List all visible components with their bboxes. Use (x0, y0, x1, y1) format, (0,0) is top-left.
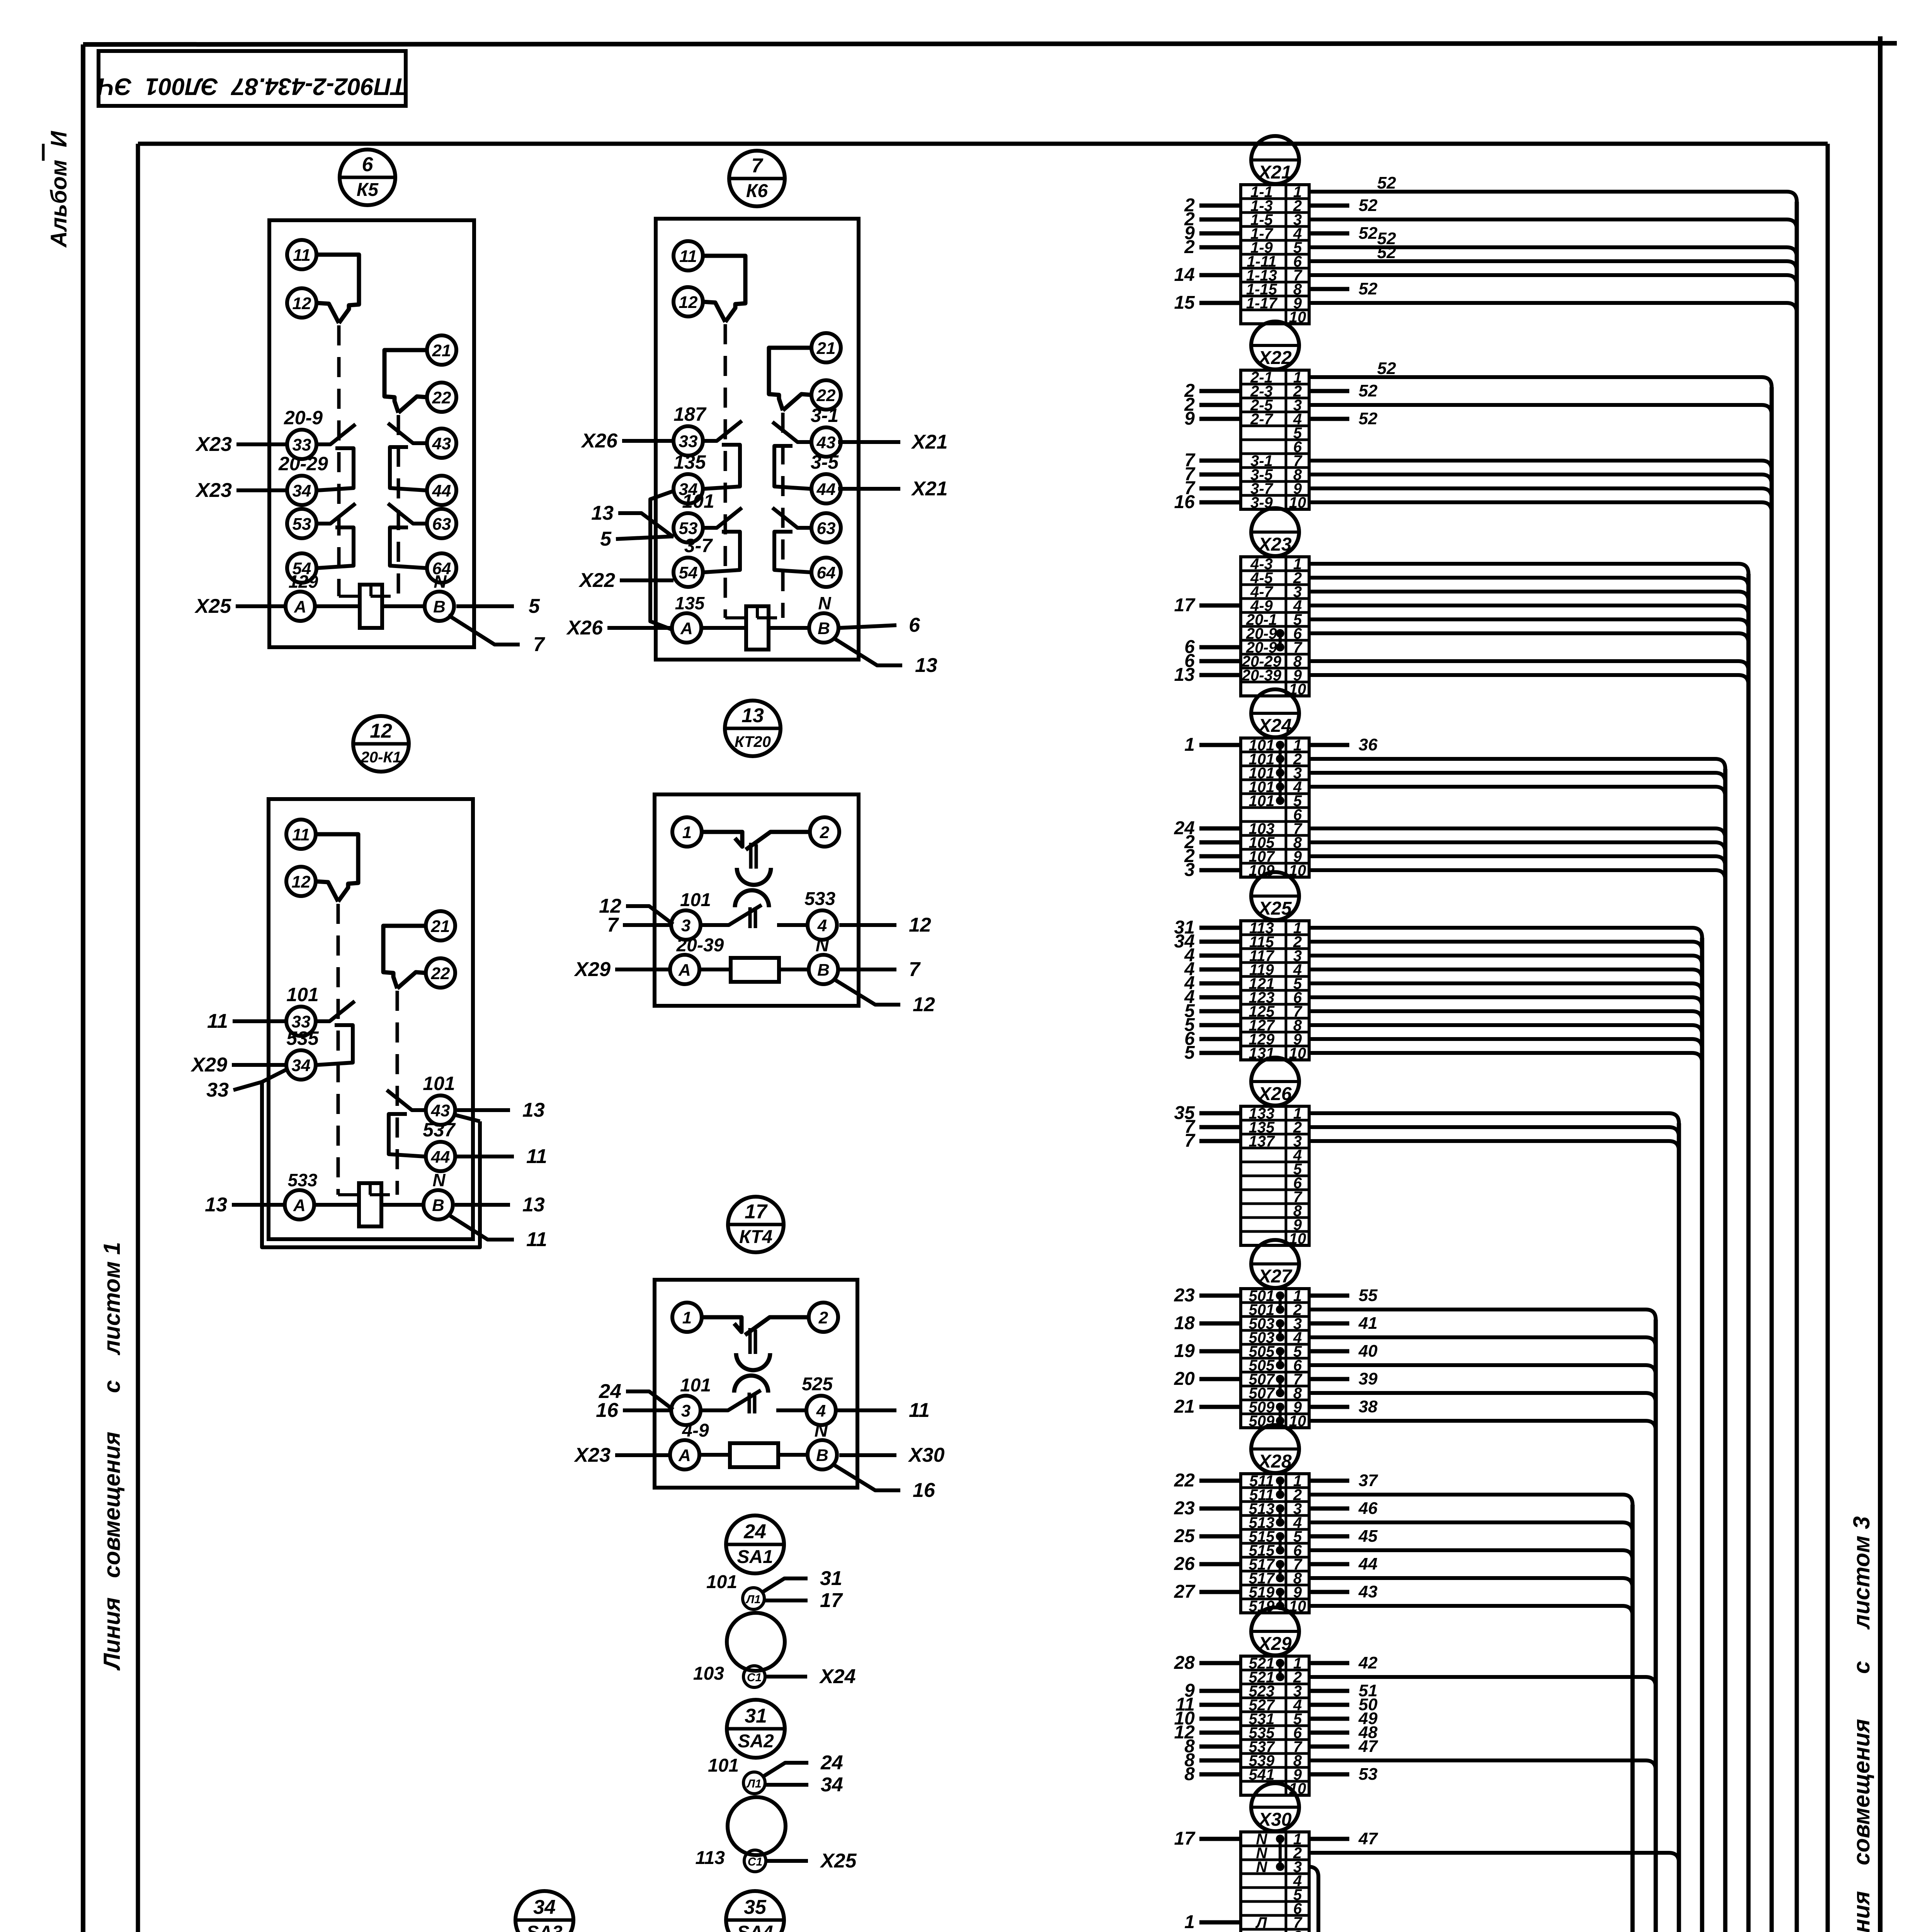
svg-text:31: 31 (820, 1567, 842, 1590)
K6 wire pin 34 to pin A (left loop) (650, 491, 674, 630)
left splice note: Линия совмещения с листом 1 (99, 1242, 125, 1671)
svg-text:1: 1 (1184, 1912, 1195, 1932)
svg-text:52: 52 (1377, 359, 1396, 378)
svg-text:4: 4 (816, 1401, 826, 1420)
Х30 jumper rows 1-3 (1279, 1839, 1282, 1867)
svg-text:А: А (293, 1196, 306, 1215)
terminal block Х30 body (1241, 1832, 1309, 1932)
K6 coil (746, 606, 769, 650)
K6 external X21 from pin 43 (838, 440, 900, 444)
20-K1 pin B (423, 1190, 453, 1219)
svg-text:537: 537 (423, 1119, 456, 1141)
svg-text:541: 541 (1249, 1766, 1275, 1783)
K5 contact 53-54 (316, 503, 355, 524)
K5 pin 34 (287, 476, 316, 505)
svg-text:Х25: Х25 (820, 1850, 857, 1872)
KT4 pin 1 (672, 1303, 702, 1332)
20-K1 pin 33 (286, 1007, 316, 1036)
svg-text:Х22: Х22 (1257, 348, 1292, 368)
KT20 pin 2 (810, 817, 839, 847)
K6 pin 63 (811, 513, 841, 543)
X30 wire to null bus (1308, 1867, 1318, 1932)
svg-text:20: 20 (1174, 1369, 1195, 1389)
svg-text:N: N (434, 571, 447, 592)
svg-text:3-1: 3-1 (811, 405, 838, 426)
svg-text:533: 533 (804, 889, 835, 909)
Х28 jumper rows 9-10 (1279, 1592, 1282, 1606)
svg-text:Х27: Х27 (1257, 1266, 1293, 1287)
svg-text:3-7: 3-7 (684, 535, 713, 556)
terminal block Х21 designator (1251, 136, 1299, 184)
K6 pin 64 (811, 558, 841, 587)
svg-text:5: 5 (1184, 1043, 1195, 1063)
svg-text:10: 10 (1289, 494, 1306, 511)
svg-text:3: 3 (1184, 860, 1195, 880)
svg-text:N: N (816, 935, 830, 956)
svg-text:12: 12 (909, 914, 931, 936)
terminal block Х23 designator (1251, 508, 1299, 556)
K6 contact 43-44 (772, 422, 811, 442)
svg-text:135: 135 (675, 593, 705, 613)
K6 external wire 13 from pin B (833, 638, 902, 665)
svg-text:27: 27 (1174, 1582, 1196, 1602)
svg-text:22: 22 (431, 964, 450, 983)
svg-text:Х25: Х25 (194, 595, 231, 617)
svg-text:12: 12 (370, 720, 392, 742)
terminal block Х24 body (1241, 738, 1309, 877)
SA1 body (727, 1613, 785, 1671)
KT20 contact blade 3-4 (701, 905, 762, 925)
svg-text:26: 26 (1174, 1554, 1195, 1574)
svg-text:9: 9 (1184, 408, 1195, 429)
svg-text:8: 8 (1293, 1928, 1302, 1932)
SA2 external wire 24 (764, 1763, 808, 1776)
svg-text:Х25: Х25 (1257, 898, 1292, 919)
cable run 21 (678, 769, 1725, 1932)
K6 pin B (809, 613, 838, 643)
20-K1 external wire 11 from pin B (447, 1214, 514, 1240)
20-K1 coil (359, 1183, 381, 1226)
svg-text:7: 7 (752, 155, 764, 177)
K6 actuator dashed left (724, 324, 727, 618)
svg-text:13: 13 (522, 1099, 545, 1121)
relay 20-K1 box (269, 799, 473, 1239)
svg-text:К6: К6 (746, 181, 768, 201)
svg-text:44: 44 (816, 480, 836, 499)
20-K1 contact 43-44 (387, 1090, 426, 1110)
svg-text:101: 101 (706, 1572, 737, 1592)
svg-text:53: 53 (293, 515, 311, 534)
svg-text:22: 22 (1174, 1470, 1195, 1491)
KT20 designator 13/КТ20 (725, 701, 781, 756)
K5 pin 64 (427, 553, 456, 583)
svg-text:101: 101 (423, 1073, 455, 1094)
svg-text:525: 525 (802, 1374, 833, 1395)
svg-text:19: 19 (1174, 1341, 1195, 1361)
svg-text:11: 11 (526, 1145, 547, 1168)
svg-text:8: 8 (1184, 1764, 1195, 1784)
svg-text:17: 17 (1174, 1828, 1196, 1849)
20-K1 pin 22 (426, 958, 455, 988)
20-K1 pin 12 (286, 867, 316, 896)
svg-text:В: В (816, 1446, 828, 1465)
svg-text:2-7: 2-7 (1250, 411, 1274, 428)
svg-text:В: В (818, 619, 830, 638)
svg-text:187: 187 (673, 403, 707, 425)
KT4 timed contact 3-4 parachute (734, 1376, 768, 1393)
svg-text:44: 44 (431, 1148, 450, 1167)
svg-text:С1: С1 (748, 1855, 762, 1868)
relay K5 box (269, 220, 474, 647)
cable run 20-5 (609, 574, 1748, 1932)
K6 pin 12 (673, 287, 703, 316)
time relay KT20 (573, 701, 935, 1016)
svg-text:5: 5 (600, 528, 612, 550)
terminal block Х25 designator (1251, 872, 1299, 920)
svg-text:16: 16 (1174, 492, 1195, 512)
svg-text:33: 33 (679, 432, 698, 451)
svg-text:40: 40 (1358, 1342, 1378, 1361)
K6 pin 43 (811, 427, 841, 457)
K5 pin 21 (427, 335, 456, 365)
SA1 external wire 31 (763, 1578, 808, 1592)
KT4 timed contact 1-2 (702, 1317, 742, 1332)
20-K1 pin 44 (426, 1142, 455, 1171)
svg-text:34: 34 (293, 481, 311, 500)
svg-text:31: 31 (745, 1705, 767, 1727)
svg-text:11: 11 (207, 1010, 228, 1032)
K6 contact 11-12 (703, 256, 745, 322)
svg-text:43: 43 (1358, 1582, 1378, 1601)
time relay KT4 (573, 1197, 944, 1502)
20-K1 external wire 13 from pin 43 with tap (457, 1108, 510, 1112)
20-K1 pin 21 (426, 911, 455, 940)
SA2 terminal Л1 (743, 1772, 765, 1794)
right splice note: Линия совмещения с листом 3 (1849, 1516, 1874, 1932)
20-K1 external wire 11 from pin 44 (456, 1155, 514, 1158)
K5 external wire 5 from pin B (456, 604, 514, 608)
terminal block Х28 designator (1251, 1425, 1299, 1473)
terminal block Х24 designator (1251, 689, 1299, 737)
svg-text:17: 17 (1174, 595, 1196, 616)
20-K1 pin 34 (286, 1050, 316, 1080)
K6 actuator dashed link (725, 616, 783, 619)
20-K1 pin 11 (286, 820, 316, 849)
svg-text:13: 13 (1174, 665, 1195, 685)
svg-text:16: 16 (913, 1479, 935, 1502)
svg-text:Х28: Х28 (1257, 1451, 1292, 1472)
K6 contact 63-64 (772, 508, 811, 528)
relay 20-K1 designator 12/20-К1 (353, 716, 409, 772)
terminal block X24 (1174, 689, 1725, 880)
terminal block Х28 body (1241, 1474, 1309, 1613)
svg-text:В: В (432, 1196, 444, 1215)
K5 pin 43 (427, 429, 456, 458)
K6 pin A (672, 613, 701, 643)
K6 external wire 6 from pin B (840, 625, 896, 628)
svg-text:101: 101 (682, 490, 714, 512)
svg-text:4-9: 4-9 (682, 1420, 709, 1441)
svg-text:SА2: SА2 (738, 1731, 774, 1752)
svg-text:12: 12 (293, 294, 311, 313)
svg-text:64: 64 (817, 563, 836, 582)
K6 pin 34 (673, 474, 703, 503)
terminal block Х29 body (1241, 1656, 1309, 1795)
svg-text:47: 47 (1358, 1737, 1378, 1756)
KT4 coil (730, 1443, 778, 1467)
svg-text:103: 103 (693, 1663, 724, 1684)
svg-text:Х26: Х26 (580, 430, 618, 452)
Х23 jumper rows 6-7 (1279, 633, 1282, 647)
K6 external X21 from pin 44 (838, 487, 900, 491)
svg-text:ТП902-2-434.87 ЭЛ001 ЭЧ: ТП902-2-434.87 ЭЛ001 ЭЧ (97, 73, 406, 100)
SA2 external Х25 (766, 1859, 808, 1863)
K6 pin 22 (811, 380, 841, 410)
svg-text:Линия совмещения с л: Линия совмещения с листом 1 (99, 1242, 125, 1671)
svg-text:52: 52 (1359, 381, 1378, 400)
svg-text:N: N (432, 1170, 446, 1190)
top-left stamp box with inverted text (97, 51, 406, 106)
svg-text:6: 6 (909, 614, 920, 636)
terminal block Х30 designator (1251, 1783, 1299, 1831)
svg-text:38: 38 (1359, 1397, 1378, 1416)
K6 contact 33-34 (703, 421, 742, 441)
svg-text:А: А (678, 961, 691, 980)
terminal block X21 (1174, 136, 1797, 326)
svg-text:КТ4: КТ4 (739, 1227, 772, 1247)
KT4 contact blade 3-4 (701, 1390, 761, 1410)
K6 contact 53-54 (703, 508, 742, 528)
svg-text:Х23: Х23 (573, 1444, 611, 1466)
svg-text:42: 42 (1358, 1653, 1378, 1672)
K5 pin A (286, 592, 315, 621)
K6 pin 21 (811, 333, 841, 362)
svg-text:К5: К5 (357, 180, 379, 200)
svg-text:13: 13 (742, 704, 764, 727)
20-K1 outer loop wire (262, 1082, 480, 1247)
terminal block X28 (1174, 1425, 1633, 1616)
svg-text:46: 46 (1358, 1499, 1378, 1518)
K5 pin B (425, 592, 454, 621)
cable run 2 (953, 1505, 1633, 1932)
svg-text:101: 101 (1249, 793, 1275, 810)
svg-text:N: N (1256, 1859, 1268, 1876)
svg-text:SА4: SА4 (737, 1922, 773, 1932)
svg-text:SА3: SА3 (526, 1922, 563, 1932)
svg-text:37: 37 (1359, 1471, 1378, 1490)
relay K6 box (656, 219, 859, 660)
SA2 terminal С1 (744, 1850, 766, 1872)
svg-text:10: 10 (1289, 1413, 1306, 1430)
K5 contact 33-34 (316, 424, 355, 444)
svg-text:20-39: 20-39 (676, 935, 724, 956)
Х27 jumper rows 1-2 (1279, 1296, 1282, 1310)
svg-text:Х30: Х30 (1257, 1810, 1292, 1830)
svg-text:21: 21 (816, 339, 836, 358)
svg-text:135: 135 (673, 451, 706, 473)
svg-text:35: 35 (744, 1896, 767, 1918)
Х24 jumper chain rows 1-5 (1279, 745, 1282, 801)
svg-text:Х21: Х21 (911, 478, 948, 500)
KT4 box (655, 1280, 857, 1488)
terminal block Х26 designator (1251, 1058, 1299, 1105)
svg-text:Х23: Х23 (1257, 534, 1292, 555)
terminal block X27 (1174, 1240, 1656, 1431)
svg-text:N: N (815, 1420, 828, 1441)
KT20 pin 1 (672, 817, 702, 847)
K5 external wire 7 from pin B (448, 615, 520, 645)
svg-text:КТ20: КТ20 (735, 733, 771, 750)
svg-text:Л1: Л1 (745, 1593, 760, 1606)
20-K1 contact 33-34 (316, 1001, 355, 1021)
svg-text:43: 43 (432, 434, 451, 453)
Х27 jumper rows 9-10 (1279, 1407, 1282, 1421)
svg-text:Х23: Х23 (195, 433, 232, 456)
svg-text:С1: С1 (747, 1671, 762, 1684)
svg-text:Линия совмещения с: Линия совмещения с листом 3 (1849, 1516, 1874, 1932)
switch SA1 (693, 1515, 856, 1688)
svg-text:53: 53 (1359, 1765, 1378, 1784)
svg-text:101: 101 (680, 890, 711, 910)
svg-text:2: 2 (818, 1308, 828, 1327)
svg-text:52: 52 (1359, 279, 1378, 298)
svg-text:Х23: Х23 (195, 479, 232, 502)
svg-text:101: 101 (680, 1375, 711, 1396)
K5 actuator dashed link (339, 595, 398, 598)
svg-text:21: 21 (1174, 1396, 1195, 1417)
svg-text:11: 11 (293, 246, 311, 265)
20-K1 pin 43 (426, 1095, 455, 1125)
svg-text:В: В (433, 597, 446, 616)
svg-text:11: 11 (909, 1399, 930, 1422)
KT20 timed contact 1-2 (702, 832, 742, 847)
svg-text:44: 44 (1358, 1554, 1378, 1573)
terminal block X25 (1174, 872, 1702, 1063)
KT20 external wire 12 from pin 4 (839, 923, 896, 927)
svg-text:55: 55 (1359, 1286, 1378, 1305)
svg-text:12: 12 (292, 872, 311, 891)
svg-text:В: В (817, 961, 830, 980)
terminal block X29 (1174, 1607, 1656, 1797)
svg-text:Х30: Х30 (908, 1444, 945, 1466)
svg-text:2: 2 (1184, 237, 1195, 257)
svg-text:14: 14 (1174, 265, 1195, 285)
svg-text:Х22: Х22 (578, 569, 615, 592)
svg-text:23: 23 (1174, 1498, 1195, 1519)
svg-text:137: 137 (1249, 1133, 1275, 1150)
terminal block X22 (1174, 321, 1772, 512)
svg-text:Х21: Х21 (911, 431, 948, 453)
K5 contact 43-44 (388, 423, 427, 443)
svg-text:28: 28 (1174, 1653, 1195, 1673)
svg-text:N: N (818, 593, 831, 613)
svg-text:2: 2 (820, 823, 830, 842)
svg-text:44: 44 (432, 481, 451, 500)
svg-text:24: 24 (820, 1752, 843, 1774)
svg-text:13: 13 (591, 502, 614, 524)
svg-text:10: 10 (1289, 1045, 1306, 1062)
svg-text:52: 52 (1359, 196, 1378, 215)
Х28 jumper rows 1-2 (1279, 1481, 1282, 1495)
svg-text:Х29: Х29 (190, 1054, 227, 1076)
svg-text:А: А (678, 1446, 691, 1465)
svg-text:3-5: 3-5 (811, 451, 839, 473)
cable run 17 (542, 387, 1772, 1932)
K5 pin 22 (427, 383, 456, 412)
20-K1 actuator dashed right (396, 991, 399, 1195)
svg-text:52: 52 (1377, 243, 1396, 262)
KT4 pin 3 (671, 1396, 701, 1425)
relay K6 (566, 151, 947, 677)
KT4 external wire 11 from pin 4 (837, 1408, 896, 1412)
terminal block Х26 body (1241, 1106, 1309, 1245)
K6 pin 54 (673, 558, 703, 587)
20-K1 contact 21-22 (383, 926, 426, 988)
svg-text:3: 3 (681, 916, 690, 935)
svg-text:Х24: Х24 (1257, 716, 1291, 736)
Х27 jumper rows 3-4 (1279, 1323, 1282, 1337)
switch SA2 designator 31/SА2 (727, 1700, 785, 1758)
relay 20-K1 (190, 716, 547, 1251)
K5 pin 12 (287, 288, 316, 318)
svg-text:21: 21 (432, 341, 451, 360)
svg-text:101: 101 (286, 984, 318, 1005)
svg-text:21: 21 (431, 917, 450, 936)
svg-text:41: 41 (1358, 1314, 1378, 1333)
svg-text:20-39: 20-39 (1242, 667, 1282, 684)
svg-text:Х26: Х26 (1257, 1084, 1292, 1104)
KT4 designator 17/КТ4 (728, 1197, 784, 1252)
svg-text:47: 47 (1358, 1829, 1378, 1848)
svg-text:33: 33 (206, 1079, 229, 1101)
SA2 external wire 34 (765, 1783, 808, 1787)
svg-text:20-29: 20-29 (278, 453, 328, 474)
svg-text:Х21: Х21 (1257, 162, 1291, 183)
svg-text:1-17: 1-17 (1246, 295, 1278, 312)
svg-text:22: 22 (432, 388, 451, 407)
KT4 external wire 16 from pin B (834, 1465, 900, 1490)
KT20 timed contact 3-4 parachute (735, 890, 769, 907)
svg-text:20-9: 20-9 (284, 407, 323, 429)
svg-text:43: 43 (431, 1101, 450, 1120)
relay K6 designator 7/К6 (729, 151, 785, 206)
Х27 jumper rows 5-6 (1279, 1351, 1282, 1365)
cable run 11 (747, 938, 1702, 1932)
svg-text:15: 15 (1174, 293, 1196, 313)
svg-text:Х26: Х26 (566, 617, 603, 639)
terminal block Х29 designator (1251, 1607, 1299, 1655)
KT20 external wire 7 from pin B (839, 968, 896, 971)
svg-text:4: 4 (817, 916, 827, 935)
svg-text:11: 11 (526, 1228, 547, 1251)
svg-text:54: 54 (679, 563, 698, 582)
20-K1 actuator dashed link (338, 1193, 397, 1196)
KT4 pin A (670, 1440, 699, 1469)
svg-text:20-К1: 20-К1 (361, 749, 401, 766)
K5 pin 63 (427, 509, 456, 538)
K6 actuator dashed right (781, 413, 785, 618)
svg-text:113: 113 (695, 1848, 725, 1868)
KT4 pin B (808, 1440, 837, 1469)
K5 actuator dashed right (397, 415, 400, 596)
svg-text:А: А (680, 619, 693, 638)
svg-text:Л1: Л1 (746, 1777, 761, 1790)
Х27 jumper rows 7-8 (1279, 1379, 1282, 1393)
terminal block Х25 body (1241, 921, 1309, 1060)
svg-text:17: 17 (820, 1589, 843, 1612)
svg-text:16: 16 (596, 1399, 619, 1422)
svg-text:1: 1 (1184, 735, 1195, 755)
